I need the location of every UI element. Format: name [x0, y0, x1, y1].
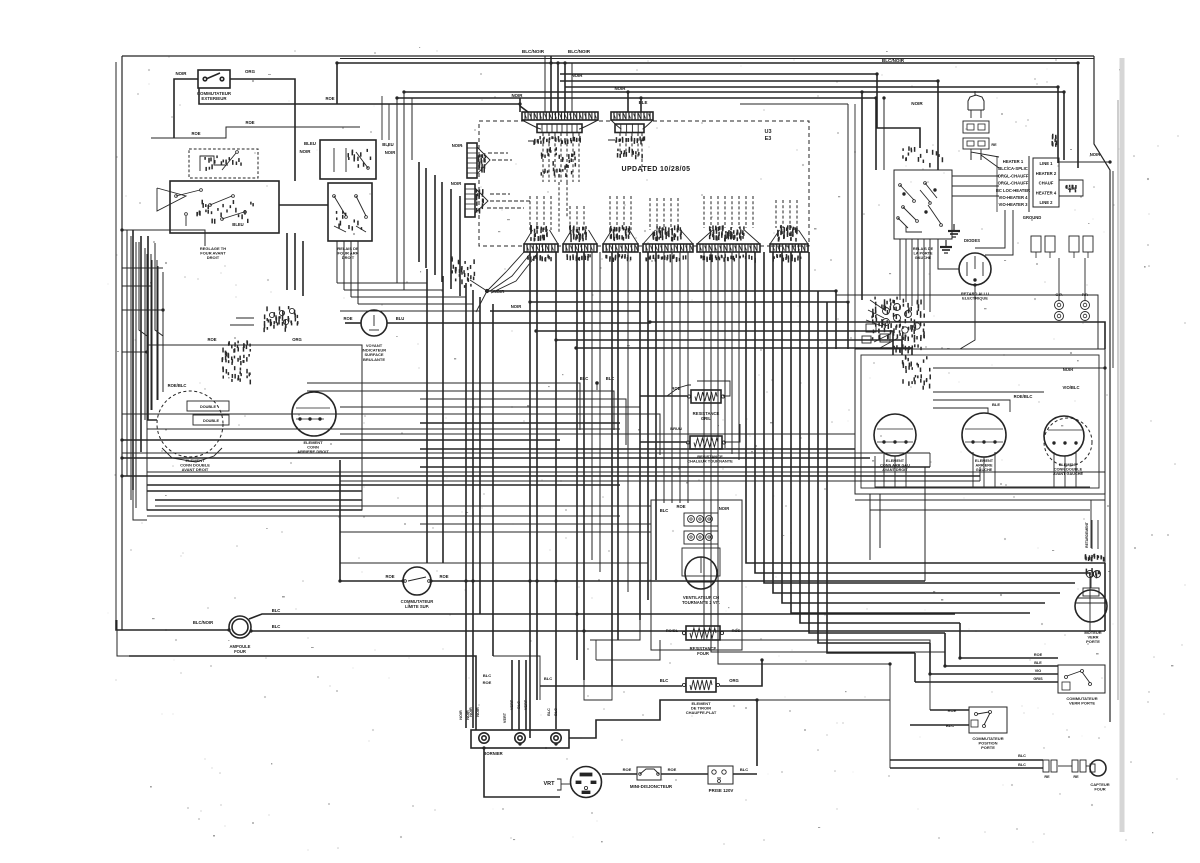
wire: ts wrap2	[985, 210, 1013, 255]
wire: mh y383	[307, 383, 580, 430]
node: RO/BL r1	[666, 628, 679, 633]
connector P1 wires	[543, 133, 579, 232]
svg-text:ORG: ORG	[292, 337, 302, 342]
node: BLC vf	[660, 508, 669, 513]
wire: cl fan	[866, 300, 898, 348]
node: ROE cb r	[668, 767, 677, 772]
wire: rh y510	[870, 509, 1090, 511]
node: DSI2 label	[451, 181, 461, 186]
wire: lh y516	[147, 515, 620, 517]
wire: blc down right	[584, 680, 612, 700]
svg-text:RE: RE	[991, 143, 997, 147]
element E4 label	[975, 459, 994, 472]
wire: lh y491	[147, 490, 362, 492]
connector CL circles	[883, 304, 921, 334]
wire: spark left	[938, 239, 959, 269]
svg-text:GAUCHE: GAUCHE	[976, 468, 993, 472]
switch S5 label	[913, 247, 934, 260]
switch S3 verr porte box	[1058, 665, 1105, 693]
wire: lh y472	[147, 471, 1105, 473]
wire: cd5	[731, 252, 733, 454]
node: vert labels	[503, 712, 507, 723]
wire: lamp2 right1	[249, 614, 955, 619]
svg-text:ROE: ROE	[191, 131, 200, 136]
terminal TB circles	[479, 733, 561, 743]
wire: stair drops	[915, 563, 1105, 682]
wire: ts wrap1	[975, 210, 1005, 248]
wire: ts top2	[981, 155, 999, 168]
wire: e4 drops	[973, 452, 995, 487]
wire: r2 right	[697, 381, 730, 396]
relay K1 box	[328, 183, 372, 241]
svg-text:BLC: BLC	[544, 676, 552, 681]
svg-text:NOIR: NOIR	[176, 71, 188, 76]
element E5 label	[1053, 463, 1083, 476]
box right elements inner	[861, 355, 1099, 488]
wire: cluster v1	[286, 233, 288, 290]
wire: cv10	[576, 252, 578, 660]
wire: cv15	[647, 252, 649, 600]
connector P7 pins	[697, 225, 760, 262]
svg-text:DOUBLE: DOUBLE	[203, 419, 219, 423]
wire: s5 feed2	[905, 239, 907, 302]
element E2 label	[297, 440, 329, 454]
wire: hbus y302	[530, 302, 848, 349]
wire: bundle left v6	[459, 196, 461, 296]
wire: mh y414	[122, 414, 660, 455]
svg-text:PRISE 120V: PRISE 120V	[709, 788, 734, 793]
wire: s5 feed3	[911, 239, 913, 306]
node: BLC lamp2b	[272, 624, 281, 629]
motor M1 label	[682, 595, 720, 605]
svg-text:CONN ARR GAU: CONN ARR GAU	[880, 463, 910, 467]
svg-text:BLE: BLE	[1034, 661, 1042, 665]
wire: nest a	[122, 230, 205, 246]
wire: cx v2	[591, 252, 593, 560]
terminal strip label	[1023, 215, 1042, 220]
wire: scan edge band	[1118, 58, 1122, 832]
wire: feeder v2	[557, 63, 559, 112]
wire: stair polylines	[746, 252, 1105, 653]
svg-text:NOIR: NOIR	[512, 93, 524, 98]
wire: s5 v2	[883, 98, 885, 170]
terminal block BORNIER	[471, 730, 569, 748]
wire: e5 drops	[1054, 452, 1076, 487]
wire: hbus y289	[487, 291, 836, 349]
spark module A1 circle	[959, 253, 991, 285]
svg-text:ROE: ROE	[671, 386, 680, 391]
switch SW2 funnel	[157, 188, 186, 211]
wire: leftcol v5	[151, 260, 153, 410]
wire: ts right	[1059, 162, 1110, 196]
wire: lv e	[150, 254, 152, 410]
wire: leftcol h1	[122, 267, 163, 269]
node: CP label	[1055, 292, 1088, 297]
wire: cs1 leads	[230, 318, 254, 325]
wire: lh y510	[147, 509, 362, 511]
node: bornier wire labels	[469, 699, 558, 716]
node: ROE s2 r	[439, 574, 448, 579]
svg-text:NOIR: NOIR	[476, 707, 480, 717]
wire: lh y429	[147, 428, 620, 430]
thermostat TH1 marks	[205, 155, 241, 170]
wire: bundle left v2	[425, 168, 427, 268]
svg-text:BLC: BLC	[272, 608, 281, 613]
wire: aux v2	[343, 241, 345, 290]
node: ROE/BLC re	[1014, 394, 1033, 399]
wire: s5 feed6	[929, 239, 931, 312]
connector P4 pins	[563, 225, 597, 261]
wire: blc step	[493, 656, 540, 686]
node: BLU lamp	[396, 316, 405, 321]
wire: cd4	[724, 252, 726, 448]
node: label BLC/NOIR b	[568, 49, 591, 54]
svg-text:BLC: BLC	[606, 376, 615, 381]
thermostat TH1 inner parts	[200, 151, 238, 171]
wire: r3 right	[724, 424, 740, 442]
wire: m2 up	[1090, 500, 1092, 588]
resistor R2 label	[693, 411, 720, 421]
wire: cv3	[465, 283, 467, 728]
connector VF1	[684, 513, 718, 526]
resistor R4 tiroir	[682, 678, 719, 692]
wire: lh y440	[122, 439, 560, 441]
connector PP box	[1069, 236, 1093, 258]
node: label BLC/NOIR a	[522, 49, 545, 54]
wire: bundle left v3	[434, 175, 436, 275]
wire: rdrop3	[1104, 322, 1106, 368]
wire: cx v4	[627, 252, 629, 592]
motor M2 verr porte	[1075, 588, 1107, 622]
wire: lamp left	[345, 322, 361, 324]
switch S1 label	[197, 91, 232, 101]
wire: lh y500	[155, 499, 362, 501]
node: NOIR re	[1063, 367, 1073, 372]
svg-text:BLC: BLC	[483, 673, 491, 678]
switch SW2 body	[170, 181, 279, 233]
node: junction dots	[121, 62, 1112, 750]
wire: aux v1	[336, 241, 338, 283]
connector P3 pins	[524, 225, 558, 262]
svg-text:NOIR: NOIR	[459, 710, 463, 720]
wire: leftcol v7	[162, 272, 164, 392]
wire: cv9	[555, 252, 557, 729]
wire: hbus y311	[490, 310, 640, 312]
wire: cd1	[703, 252, 705, 430]
svg-text:VIO/BLC: VIO/BLC	[1063, 385, 1080, 390]
connector P7 wires	[704, 196, 753, 228]
sensor RTD label	[1090, 782, 1109, 792]
node: L2 label	[1066, 185, 1076, 193]
wire: top border	[122, 56, 1094, 59]
wire: lamp2 right2	[251, 630, 1105, 632]
wire: cv4	[472, 290, 474, 728]
svg-text:LINE 2: LINE 2	[1039, 200, 1053, 205]
svg-text:FOUR: FOUR	[697, 651, 709, 656]
wire: corner app3	[411, 104, 413, 160]
switch S4 label	[972, 736, 1003, 750]
node: NOIR label S1	[176, 71, 188, 76]
svg-text:BLC: BLC	[272, 624, 281, 629]
svg-text:BLE: BLE	[639, 100, 648, 105]
outlet J1 label	[709, 788, 734, 793]
wire: lv a	[126, 440, 128, 476]
wire: leftcol v4	[146, 254, 148, 420]
wire: corner 5	[340, 297, 480, 311]
wire: feeder v3	[564, 63, 566, 112]
plug VRT circle	[571, 767, 602, 798]
svg-text:ROE/BLC: ROE/BLC	[1014, 394, 1033, 399]
svg-text:BLC/NOIR: BLC/NOIR	[568, 49, 591, 54]
connector P5 wires	[610, 196, 631, 230]
node: ROE vf	[676, 504, 685, 509]
motor M1 ventilateur	[682, 548, 720, 589]
wire: hbus y322	[650, 322, 1105, 349]
wire: bus y98	[397, 98, 876, 170]
wire: leftcol h2	[122, 285, 152, 287]
svg-text:NOIR: NOIR	[911, 101, 923, 106]
box left elements	[147, 345, 362, 510]
lamp DS3 dome	[968, 95, 984, 118]
node: m2 rot label	[1085, 520, 1098, 549]
svg-text:RELAIS DE: RELAIS DE	[913, 247, 934, 251]
wire: aux v3	[350, 241, 352, 297]
svg-text:DROIT: DROIT	[207, 255, 220, 260]
svg-text:GRIS: GRIS	[1033, 677, 1043, 681]
wire: bus y74	[560, 74, 920, 148]
connector P6 pins	[643, 225, 693, 262]
wire: br y640	[590, 620, 640, 640]
svg-text:GRIL: GRIL	[701, 416, 711, 421]
node: BLC r4	[660, 678, 669, 683]
svg-text:NOIR: NOIR	[300, 149, 312, 154]
wire: s2 left up	[339, 460, 341, 581]
node: ROE label up2	[191, 131, 200, 136]
svg-text:VIO: VIO	[1035, 669, 1042, 673]
wire: s5 feed1	[899, 239, 901, 300]
wire: lh y423	[420, 422, 620, 424]
wire: vert drop x596	[595, 640, 597, 660]
wire: r2 left	[640, 395, 687, 397]
svg-text:BLC/NOIR: BLC/NOIR	[882, 58, 905, 63]
wire: bundle left v4	[441, 182, 443, 282]
node: ROE r2	[671, 386, 680, 391]
box right elements	[855, 349, 1105, 494]
wire: mh y391	[307, 391, 614, 430]
node: ORG label CS1	[292, 337, 302, 342]
node: BLEU aux right	[382, 142, 395, 155]
connector P1 inner row	[537, 124, 582, 133]
switch S1 COMMUTATEUR EXTERIEUR box	[198, 70, 230, 88]
wire: cv2	[442, 276, 444, 563]
wire: feeder conn B	[640, 98, 642, 112]
svg-text:NOIR: NOIR	[1090, 152, 1100, 157]
relay K1 contacts	[333, 195, 368, 232]
wire: aux v4	[357, 241, 359, 304]
wire: cd2	[710, 252, 712, 436]
wire: feeder v1	[550, 56, 552, 112]
wire: cv12	[611, 252, 613, 686]
svg-text:GROUND: GROUND	[1023, 215, 1042, 220]
svg-text:NOIR: NOIR	[452, 143, 462, 148]
wire: cd6	[738, 252, 740, 460]
node: ROE lamp	[343, 316, 352, 321]
svg-text:ELEMENT: ELEMENT	[886, 459, 905, 463]
svg-text:PORTE: PORTE	[981, 745, 995, 750]
element E3 label	[880, 459, 910, 472]
resistor R2 RESISTANCE GRIL	[687, 390, 724, 403]
wire: hbus y295 ext	[836, 295, 1098, 349]
relay K1 marks	[337, 211, 362, 231]
connector CR blob	[903, 355, 931, 389]
board U3: designator	[764, 129, 771, 142]
svg-text:CONN DOUBLE: CONN DOUBLE	[1054, 467, 1083, 471]
node: bl labels mid	[0, 0, 1, 1]
connector CP box	[1031, 236, 1055, 258]
wire: rv x880	[879, 494, 881, 548]
box aux marks	[334, 148, 369, 172]
connector P1 smudge	[541, 147, 575, 177]
wire: cd8	[711, 436, 945, 666]
connector CL blob	[872, 297, 924, 343]
node: NOIR ts	[1090, 152, 1100, 157]
wire: cv11	[583, 252, 585, 680]
spark module A1 label	[961, 291, 989, 301]
lamp DS1 label	[362, 343, 386, 362]
wire: aux right v	[382, 96, 389, 140]
wire: lh y485	[147, 484, 620, 486]
wire: ts feed3	[952, 195, 999, 197]
element E1 label	[180, 458, 210, 472]
wire: right col x1105	[1104, 368, 1106, 563]
wire: bornier down	[484, 748, 560, 797]
svg-text:HEATER 2: HEATER 2	[1036, 171, 1057, 176]
connector P2 smudge	[618, 147, 643, 159]
wire: lh y532	[340, 531, 651, 533]
breaker CB1 label	[630, 784, 673, 789]
svg-text:ROE: ROE	[483, 680, 492, 685]
svg-text:AVANT DROIT: AVANT DROIT	[882, 468, 908, 472]
relay K1 label	[337, 246, 359, 260]
node: ROE r1	[732, 628, 741, 633]
svg-text:E3: E3	[765, 136, 772, 142]
wire: lv d	[144, 248, 146, 420]
svg-text:VERT: VERT	[503, 712, 507, 723]
resistor R1 RESISTANCE FOUR	[682, 626, 723, 640]
svg-text:BRULANTE: BRULANTE	[363, 357, 385, 362]
wire: bl frame x117	[117, 620, 129, 656]
breaker CB1	[637, 767, 661, 780]
svg-text:RO/BL: RO/BL	[666, 628, 679, 633]
element E5 circle	[1044, 416, 1084, 456]
svg-text:NOIR: NOIR	[615, 86, 627, 91]
wire: lv f	[156, 260, 158, 400]
wire: cv5	[479, 297, 481, 614]
connector P3 wires	[530, 196, 551, 230]
connector CL rects	[862, 324, 890, 343]
svg-text:BC LOC-HEATER: BC LOC-HEATER	[996, 188, 1030, 193]
wire: tb right loop	[569, 700, 757, 766]
wire: lh y476	[122, 475, 980, 477]
wire: lh y458	[122, 457, 870, 459]
connector CS1 blob	[264, 306, 298, 332]
svg-text:NOIR: NOIR	[466, 710, 470, 720]
svg-text:ROE: ROE	[439, 574, 448, 579]
switch S5 box	[894, 170, 952, 239]
svg-text:ORG: ORG	[245, 69, 256, 74]
node: DIODES label	[964, 238, 980, 243]
wire: re wires3	[933, 400, 1010, 412]
svg-text:ELEMENT: ELEMENT	[1059, 463, 1078, 467]
wire: left cluster loop	[148, 236, 157, 420]
wire: ts feed2	[952, 185, 999, 187]
wire: r2 loop	[667, 385, 691, 396]
svg-text:TOURNANTE 2 VIT.: TOURNANTE 2 VIT.	[682, 600, 720, 605]
wire: lh y506	[155, 505, 651, 507]
switch S5 contacts	[897, 182, 943, 232]
node: BLC j1	[740, 767, 748, 772]
connector P1 pins	[522, 112, 598, 129]
connector CE blob	[222, 340, 250, 384]
node: label NOIR1	[512, 93, 524, 98]
wire: lh y481	[340, 480, 980, 482]
wire: lh y434	[340, 433, 855, 435]
wire: r4 left	[540, 686, 682, 700]
node: VIO/BLC re	[1063, 385, 1080, 390]
wire: hbus y331	[536, 331, 893, 355]
svg-text:VIO-HEATER 3: VIO-HEATER 3	[998, 202, 1028, 207]
svg-text:DOUBLE: DOUBLE	[200, 405, 216, 409]
wire: right border upper	[1094, 56, 1110, 722]
switch SW2 inner marks	[197, 200, 253, 224]
svg-text:ROE: ROE	[343, 316, 352, 321]
svg-text:ROE/BLC: ROE/BLC	[168, 383, 187, 388]
node: BLC rtd1	[1018, 754, 1026, 758]
wire: corner 4	[358, 290, 473, 304]
svg-text:CHALEUR TOURNANTE: CHALEUR TOURNANTE	[687, 459, 733, 464]
wire: leftcol v3	[140, 248, 142, 452]
svg-text:EXTERIEUR: EXTERIEUR	[201, 96, 227, 101]
connector DSI2 strip	[465, 184, 475, 217]
svg-text:ROE: ROE	[325, 96, 334, 101]
wire: cd3	[717, 252, 719, 442]
svg-text:BLE: BLE	[992, 402, 1000, 407]
box aux smudge	[348, 149, 370, 168]
element E4 marks	[965, 429, 1003, 443]
svg-text:ELEMENT: ELEMENT	[975, 459, 994, 463]
wire: leftcol v0	[126, 230, 128, 476]
svg-text:ORGL-CHAUFF: ORGL-CHAUFF	[998, 181, 1029, 186]
svg-text:CHAUFFE-PLAT: CHAUFFE-PLAT	[686, 710, 717, 715]
board U3: updated note	[622, 166, 691, 173]
switch SW2 contacts	[175, 189, 247, 226]
connector CL label smudge	[893, 344, 921, 353]
terminal strip TS1 rows	[996, 156, 1030, 212]
svg-text:U3: U3	[764, 129, 771, 135]
wire: r4 right	[720, 660, 762, 686]
element E3 circle	[874, 414, 916, 456]
svg-text:BLC/NOIR: BLC/NOIR	[522, 49, 545, 54]
node: junction fan	[470, 252, 537, 312]
node: ROE s4	[948, 708, 957, 713]
wire: bundle left v1	[418, 162, 420, 262]
wire: roe top	[199, 88, 520, 112]
connector DSI1 fan	[477, 147, 490, 174]
connector P1 label bar	[528, 136, 580, 145]
wire: cx v5	[663, 252, 665, 503]
svg-text:BLEU: BLEU	[232, 222, 243, 227]
svg-text:ROE: ROE	[245, 120, 254, 125]
